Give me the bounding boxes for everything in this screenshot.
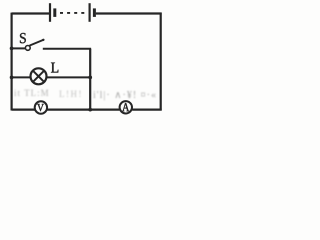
wire: bottom side, voltmeter to node junction bbox=[47, 108, 119, 110]
wire: lamp branch, left segment bbox=[12, 76, 31, 78]
svg-text:i'l|· ∧·¥! ¤·«: i'l|· ∧·¥! ¤·« bbox=[93, 90, 157, 101]
voltmeter letter V bbox=[37, 104, 44, 111]
ammeter letter A bbox=[122, 103, 129, 111]
voltmeter V circle bbox=[35, 101, 47, 113]
lamp L cross stroke 2 bbox=[33, 71, 44, 82]
battery B2 short plate (right cell) bbox=[93, 8, 96, 17]
switch S blade tip bbox=[42, 39, 44, 41]
battery B1 long plate (left cell) bbox=[49, 3, 51, 22]
battery B1 short plate (left cell) bbox=[53, 8, 56, 17]
ammeter A circle bbox=[120, 101, 132, 113]
node: junction dot inner wire / lamp branch bbox=[88, 76, 92, 80]
wire: dashed link between cells bbox=[60, 12, 86, 14]
wire: lamp branch, right segment bbox=[47, 76, 91, 78]
label S bbox=[20, 33, 26, 43]
wire: switch branch, right segment to inner vertical bbox=[43, 48, 91, 50]
watermark text band right bbox=[93, 90, 157, 101]
wire: bottom side, ammeter to bottom-right corner bbox=[132, 108, 161, 110]
label L bbox=[51, 63, 58, 73]
node: junction dot left wire / switch branch bbox=[10, 47, 14, 51]
lamp L circle bbox=[31, 68, 47, 84]
wire: inner vertical (switch/lamp branch to bottom) bbox=[89, 49, 91, 110]
wire: top side, battery to top-right corner bbox=[96, 12, 162, 14]
wire: right side vertical bbox=[160, 13, 162, 111]
svg-text:L!H!: L!H! bbox=[59, 89, 83, 99]
svg-text:it TL:M: it TL:M bbox=[14, 88, 50, 98]
node: junction dot left wire / lamp branch bbox=[10, 76, 14, 80]
switch S blade (open) bbox=[30, 40, 44, 46]
switch S pivot circle bbox=[25, 46, 30, 51]
wire: top side, left segment to battery bbox=[12, 12, 50, 14]
wire: left side vertical bbox=[11, 13, 13, 111]
wire: bottom side, left corner to voltmeter bbox=[12, 108, 35, 110]
battery B2 long plate (right cell) bbox=[88, 3, 90, 22]
node: junction dot inner wire / bottom wire bbox=[88, 108, 92, 112]
wire: switch branch, left segment bbox=[12, 47, 26, 49]
watermark text band middle bbox=[59, 89, 83, 99]
watermark text band left bbox=[14, 88, 50, 98]
lamp L cross stroke 1 bbox=[33, 71, 44, 82]
